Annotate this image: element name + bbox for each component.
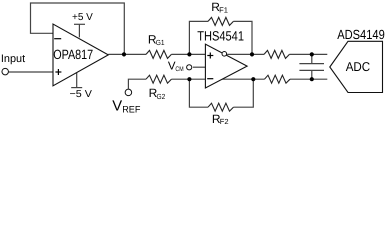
svg-text:G1: G1 xyxy=(156,38,165,47)
svg-text:ADS4149: ADS4149 xyxy=(337,27,385,42)
svg-text:V: V xyxy=(112,99,122,115)
svg-text:G2: G2 xyxy=(157,92,166,101)
svg-text:REF: REF xyxy=(122,105,140,116)
svg-text:+5 V: +5 V xyxy=(72,12,93,23)
svg-text:ADC: ADC xyxy=(346,59,371,74)
svg-text:OPA817: OPA817 xyxy=(53,47,93,62)
svg-text:CM: CM xyxy=(175,66,183,73)
svg-text:F2: F2 xyxy=(220,117,229,126)
svg-text:F1: F1 xyxy=(219,5,228,14)
svg-text:−5 V: −5 V xyxy=(70,89,93,100)
svg-text:THS4541: THS4541 xyxy=(197,29,244,44)
svg-text:Input: Input xyxy=(1,53,25,65)
